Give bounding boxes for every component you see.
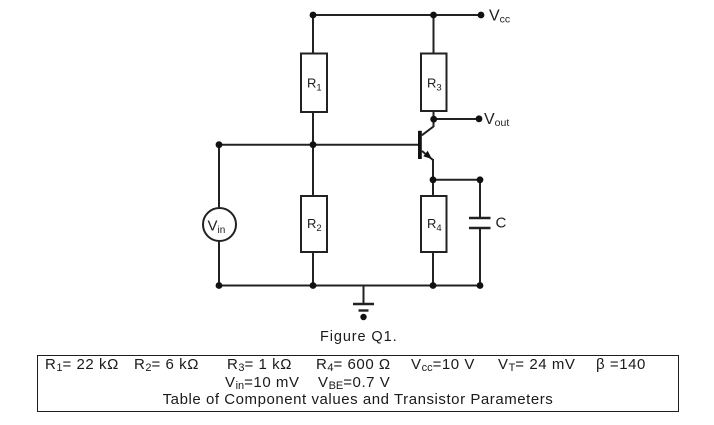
- resistor R1: [301, 54, 327, 113]
- wire emitter down: [432, 159, 434, 180]
- node top R3 junction: [430, 12, 437, 19]
- node emitter junction: [430, 176, 437, 183]
- node Vcc terminal: [478, 12, 485, 19]
- node base-left junction: [216, 141, 223, 148]
- wire R3 top: [433, 15, 435, 54]
- wire R4 bottom: [432, 252, 434, 286]
- wire R1 bottom to base node: [312, 112, 314, 145]
- wire bottom rail: [219, 285, 480, 287]
- wire C bottom: [479, 228, 481, 286]
- svg-text:Vin: Vin: [208, 218, 226, 237]
- table of component values: [37, 355, 679, 412]
- node Vout terminal: [476, 115, 483, 122]
- resistor R4: [421, 196, 447, 252]
- wire Vin bottom: [218, 241, 220, 286]
- resistor R2: [301, 196, 327, 252]
- node bottom-R2 junction: [310, 282, 317, 289]
- node bottom-C junction: [477, 282, 484, 289]
- node bottom-R4 junction: [430, 282, 437, 289]
- wire C top: [479, 180, 481, 218]
- capacitor C: [469, 215, 507, 232]
- node base-R2 junction: [310, 141, 317, 148]
- svg-text:C: C: [496, 215, 507, 232]
- wire R2 top: [312, 145, 314, 196]
- svg-text:R4: R4: [427, 216, 442, 234]
- svg-text:R3: R3: [427, 76, 442, 94]
- transistor Q1: [418, 127, 434, 161]
- node collector junction: [430, 116, 437, 123]
- wire R1 top: [312, 14, 314, 54]
- wire Vout: [434, 118, 480, 120]
- svg-text:R2: R2: [307, 216, 322, 234]
- wire R3 bottom to collector node: [433, 111, 435, 127]
- wire Vin top: [218, 145, 220, 208]
- wire base line: [219, 144, 419, 146]
- svg-text:Vout: Vout: [484, 111, 509, 129]
- source Vin: [203, 208, 236, 241]
- node bottom-left junction: [216, 282, 223, 289]
- svg-text:R1: R1: [307, 76, 322, 94]
- wire emitter node to C branch: [433, 179, 480, 181]
- node emitter-C junction: [477, 176, 484, 183]
- resistor R3: [421, 54, 447, 112]
- ground: [353, 286, 374, 321]
- wire R4 top: [432, 180, 434, 196]
- caption Figure Q1.: [320, 329, 398, 345]
- wire R2 bottom: [312, 252, 314, 286]
- node top-left junction: [310, 12, 317, 19]
- wire top rail Vcc: [313, 14, 481, 16]
- svg-text:Vcc: Vcc: [489, 8, 510, 26]
